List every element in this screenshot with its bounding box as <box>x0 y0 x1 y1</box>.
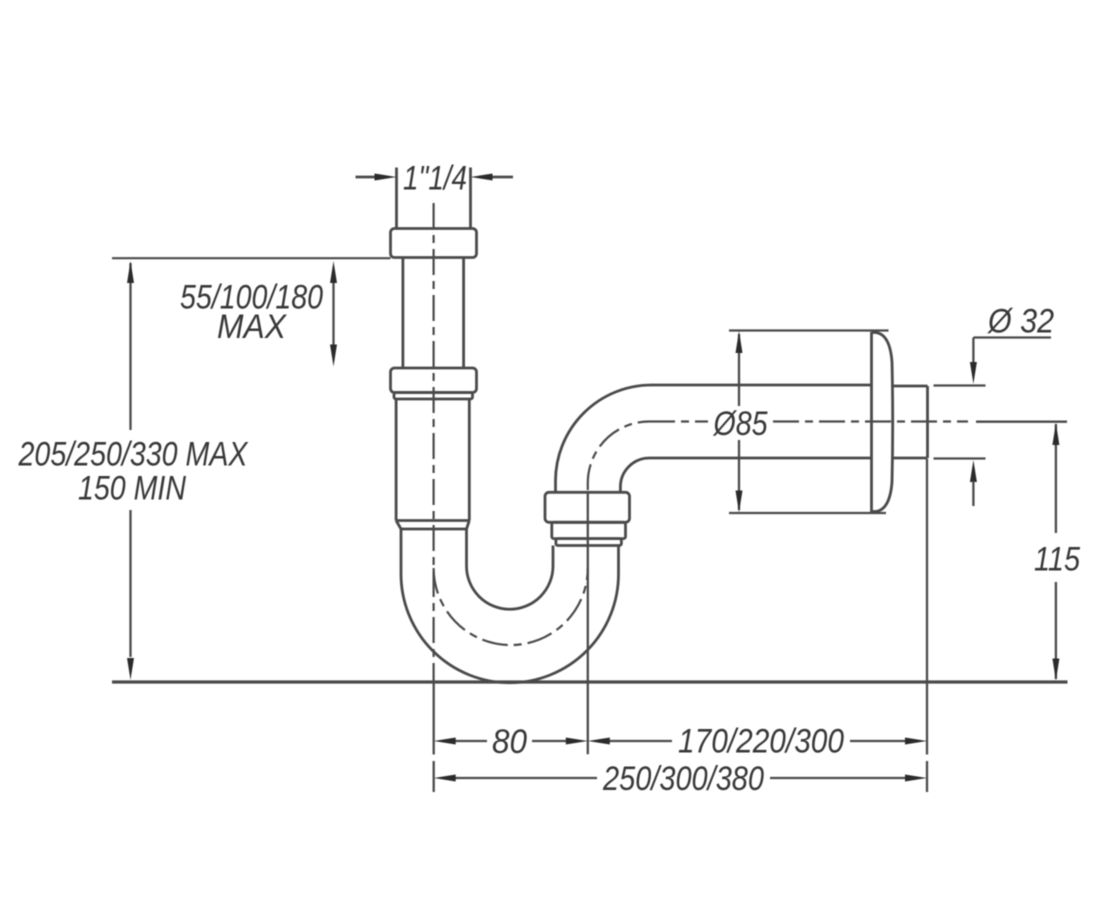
floor baseline <box>112 680 1068 683</box>
dimension 115 <box>976 422 1067 681</box>
centerline: outlet pipe horizontal (dash-dot) <box>649 420 968 422</box>
dimension 205/250/330 MAX / 150 MIN <box>127 261 134 680</box>
wire: bottom extension lines <box>434 459 927 792</box>
svg-text:MAX: MAX <box>217 308 287 346</box>
wall pipe stub beyond flange <box>893 386 928 458</box>
outlet elbow inner wall <box>620 458 871 492</box>
svg-text:1"1/4: 1"1/4 <box>403 160 467 198</box>
centerline: trap U-bend arc (dash-dot) <box>434 568 588 645</box>
svg-text:Ø85: Ø85 <box>713 405 768 443</box>
svg-text:250/300/380: 250/300/380 <box>602 760 764 798</box>
wire: outlet riser extension line down to bottom dims <box>587 492 589 754</box>
slip nut N1 (top) <box>391 229 477 258</box>
centerline: inlet pipe vertical (dash-dot) <box>433 203 435 683</box>
trap inlet tube lower section <box>401 529 467 574</box>
wire: flange extension lines <box>729 331 889 514</box>
outlet elbow outer wall <box>556 385 872 492</box>
centerline: outlet elbow arc (dash-dot) <box>588 422 649 491</box>
dimension 80 <box>434 738 588 745</box>
trap outlet riser tube <box>553 546 619 575</box>
trap outlet slip nut <box>545 492 630 522</box>
tailpiece tube <box>396 399 469 521</box>
tailpiece collar / chamfer ring <box>396 521 469 530</box>
wire: left height extension line (top) <box>112 257 391 259</box>
trap U-bend outer wall <box>401 574 619 683</box>
dimension 250/300/380 <box>434 775 927 782</box>
svg-text:Ø 32: Ø 32 <box>987 303 1054 341</box>
dimension 1"1/4 arrows <box>356 174 514 181</box>
svg-text:170/220/300: 170/220/300 <box>678 723 844 761</box>
trap U-bend inner wall <box>467 566 554 609</box>
svg-text:205/250/330 MAX: 205/250/330 MAX <box>18 436 249 474</box>
wire: Ø32 extension lines <box>934 386 986 459</box>
svg-text:80: 80 <box>492 723 527 761</box>
wall flange Ø85 <box>872 332 893 512</box>
svg-text:115: 115 <box>1034 541 1080 579</box>
dimension 170/220/300 <box>588 738 927 745</box>
dimension Ø85 line with arrows <box>736 331 743 513</box>
inlet tube upper section <box>403 258 464 369</box>
dimension 55/100/180 MAX <box>330 261 337 367</box>
svg-text:150 MIN: 150 MIN <box>78 470 186 508</box>
slip nut N2 (middle) <box>391 368 477 399</box>
trap outlet nut rings <box>552 522 626 545</box>
wire: extension lines for 1"1/4 tailpiece diameter <box>397 168 471 229</box>
dimension Ø32 leader and arrows <box>970 338 1051 507</box>
